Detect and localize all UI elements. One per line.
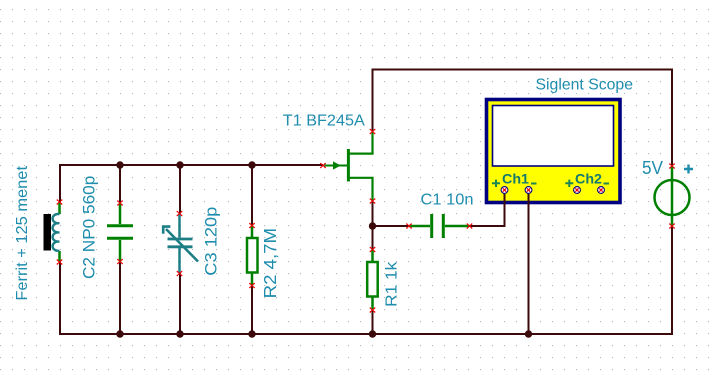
resistor R1 pin top: [370, 248, 374, 252]
resistor R1 pin bottom: [370, 308, 374, 312]
transistor T1 bar: [347, 149, 350, 182]
inductor L1 pin bottom: [57, 260, 61, 264]
wire Ch1 minus down: [528, 193, 530, 334]
junction bottom rail at R2: [248, 330, 255, 337]
capacitor C1 pin right: [467, 224, 471, 228]
variable capacitor C3 arrow diagonal: [166, 229, 198, 262]
wire junction to C1: [373, 225, 410, 227]
capacitor C2 leads: [119, 203, 122, 262]
svg-text:R2 4,7M: R2 4,7M: [260, 228, 280, 299]
capacitor C1 leads: [409, 225, 470, 228]
scope terminal Ch1 plus: [501, 187, 508, 194]
wire R2 branch lower: [251, 286, 253, 335]
junction bottom rail at Ch1 minus: [525, 330, 532, 337]
voltage source 5V pin bottom: [670, 224, 674, 228]
variable capacitor C3 plates: [168, 239, 193, 247]
wire C1 to scope corner: [470, 225, 505, 227]
wire drain vertical: [372, 70, 374, 132]
voltage source 5V pin top: [670, 164, 674, 168]
variable capacitor C3 pin bottom: [177, 272, 181, 276]
scope U1 outer box: [487, 100, 621, 203]
wire 5V lower: [671, 226, 673, 334]
label Ch1 minus sign: [531, 183, 537, 185]
inductor L1 core bar: [44, 214, 52, 251]
svg-text:Ch2: Ch2: [575, 171, 602, 187]
capacitor C2 pin bottom: [118, 260, 122, 264]
wire Ch1 plus stub over box: [504, 192, 506, 205]
resistor R2 pin top: [250, 224, 254, 228]
variable capacitor C3 pin top: [177, 212, 181, 216]
wire left vertical lower: [59, 262, 61, 334]
transistor T1 pin gate: [321, 164, 325, 168]
resistor R2 pin bottom: [250, 284, 254, 288]
label Ch2 plus sign: [565, 180, 573, 187]
scope terminal Ch2 minus: [598, 187, 605, 194]
capacitor C1 plates: [432, 214, 444, 238]
wire C2 branch upper: [119, 165, 121, 203]
junction bottom rail at R1: [369, 330, 376, 337]
wire Ch1 minus stub over box: [528, 192, 530, 205]
resistor R1 body: [367, 262, 378, 297]
svg-text:R1 1k: R1 1k: [384, 261, 401, 307]
scope terminal Ch2 plus: [574, 187, 581, 194]
wire bottom rail: [59, 333, 673, 335]
junction top rail at C3: [176, 161, 183, 168]
wire up to Ch1 plus: [504, 193, 506, 227]
label Ch1 plus sign: [492, 180, 500, 187]
svg-text:Ferrit + 125 menet: Ferrit + 125 menet: [14, 165, 31, 300]
resistor R1 leads: [371, 250, 374, 311]
voltage source 5V through line: [671, 166, 674, 226]
transistor T1 gate arrow: [333, 161, 341, 169]
wire C3 branch upper: [179, 165, 181, 214]
junction bottom rail at C2: [116, 330, 123, 337]
wire top rail right: [372, 69, 673, 71]
wire source to junction: [372, 201, 374, 226]
wire top rail left (gate rail): [60, 164, 323, 166]
junction bottom rail at C3: [176, 330, 183, 337]
transistor T1 drain lead: [349, 132, 373, 154]
resistor R2 leads: [251, 226, 254, 286]
variable capacitor C3 leads: [178, 214, 181, 274]
label Ch2 minus sign: [604, 183, 610, 185]
svg-text:C1 10n: C1 10n: [421, 192, 474, 209]
wire C2 branch lower: [119, 262, 121, 335]
wire 5V upper: [671, 69, 673, 166]
voltage source 5V circle: [655, 180, 690, 215]
transistor T1 pin drain: [370, 130, 374, 134]
svg-text:C3 120p: C3 120p: [202, 207, 221, 276]
scope terminal Ch1 minus: [525, 187, 532, 194]
transistor T1 gate lead: [325, 165, 348, 167]
scope U1 screen: [493, 106, 614, 167]
variable capacitor C3 arrowhead: [163, 227, 170, 234]
inductor L1 leads: [58, 202, 61, 262]
svg-text:C2 NP0 560p: C2 NP0 560p: [80, 176, 99, 279]
inductor L1 coil: [53, 214, 60, 251]
wire left vertical upper: [59, 164, 61, 202]
svg-text:5V: 5V: [642, 157, 664, 178]
junction top rail at C2: [116, 161, 123, 168]
transistor T1 pin source: [370, 199, 374, 203]
capacitor C1 pin left: [407, 224, 411, 228]
resistor R2 body: [247, 238, 258, 273]
wire R1 bottom: [372, 310, 374, 334]
transistor T1 source lead: [349, 178, 373, 201]
junction source node: [369, 222, 376, 229]
wire junction to R1: [372, 226, 374, 250]
svg-text:Siglent Scope: Siglent Scope: [536, 77, 634, 94]
svg-text:T1 BF245A: T1 BF245A: [283, 113, 365, 130]
label 5V plus sign: [684, 165, 693, 174]
wire C3 branch lower: [179, 274, 181, 335]
capacitor C2 plates: [107, 226, 133, 239]
wire R2 branch upper: [251, 165, 253, 226]
svg-text:Ch1: Ch1: [502, 171, 529, 187]
junction top rail at R2: [248, 161, 255, 168]
inductor L1 pin top: [57, 200, 61, 204]
capacitor C2 pin top: [118, 201, 122, 205]
